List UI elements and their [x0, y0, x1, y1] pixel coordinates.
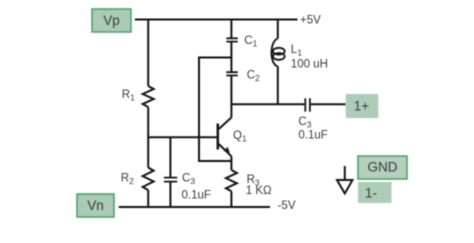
svg-text:R2: R2 — [121, 173, 134, 187]
svg-text:1+: 1+ — [354, 99, 370, 114]
svg-text:1-: 1- — [365, 186, 377, 201]
svg-text:Vp: Vp — [103, 13, 120, 28]
svg-text:C2: C2 — [247, 70, 260, 84]
svg-text:C1: C1 — [244, 35, 257, 49]
svg-text:1 KΩ: 1 KΩ — [246, 185, 272, 197]
svg-text:GND: GND — [368, 160, 398, 175]
svg-text:Vn: Vn — [87, 198, 104, 213]
svg-text:100 uH: 100 uH — [291, 59, 328, 71]
svg-text:0.1uF: 0.1uF — [298, 130, 327, 142]
svg-text:R1: R1 — [122, 89, 135, 103]
svg-text:0.1uF: 0.1uF — [182, 190, 211, 202]
svg-text:+5V: +5V — [300, 14, 321, 26]
svg-text:C3: C3 — [182, 173, 195, 187]
svg-text:-5V: -5V — [278, 200, 296, 212]
svg-text:C3: C3 — [298, 116, 311, 130]
svg-text:Q1: Q1 — [233, 130, 247, 144]
svg-text:L1: L1 — [291, 44, 302, 58]
